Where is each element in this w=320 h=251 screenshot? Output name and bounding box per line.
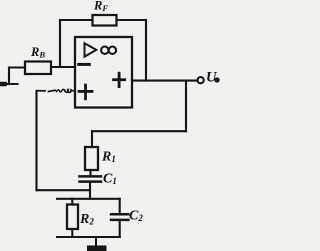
wire R1 bottom to C1 <box>89 170 91 176</box>
output terminal circle <box>198 77 204 83</box>
wire RF right <box>117 19 147 21</box>
input terminal blob <box>0 82 5 87</box>
op-amp output plus sign <box>114 73 125 86</box>
resistor R2 <box>67 199 78 237</box>
wire output feedback vertical down <box>185 81 187 132</box>
wire C1 bottom to rail <box>89 182 91 199</box>
wire parallel network top rail <box>57 198 120 200</box>
wire junction horizontal to C1 node <box>37 189 91 191</box>
label Uo subscript blob <box>214 77 219 82</box>
wire RF left <box>60 19 93 21</box>
wire non-inverting input dashed with scribble <box>38 89 75 92</box>
wire RB left <box>9 66 25 68</box>
op-amp inverting input minus sign <box>79 63 90 66</box>
op-amp U1 <box>75 37 132 108</box>
wire RF right vertical down to output <box>145 20 147 81</box>
capacitor C1 <box>80 176 102 181</box>
resistor R1 <box>85 147 98 170</box>
wire output <box>132 80 197 82</box>
capacitor C2 <box>111 199 128 237</box>
wire input vertical <box>8 68 10 85</box>
svg-text:U: U <box>206 70 218 86</box>
wire input horizontal from left edge <box>0 83 18 85</box>
wire RB right to inverting input <box>51 66 75 68</box>
resistor RB <box>25 62 51 75</box>
wire down to R1 top <box>91 131 93 147</box>
wire long horizontal to R1 <box>92 130 186 132</box>
op-amp non-inverting input plus sign <box>79 85 92 99</box>
wire RF left vertical down to inverting input <box>59 20 61 67</box>
resistor RF <box>93 15 117 26</box>
wire parallel network bottom rail <box>57 236 120 238</box>
ground <box>87 237 107 251</box>
wire non-inverting vertical down <box>35 91 37 190</box>
